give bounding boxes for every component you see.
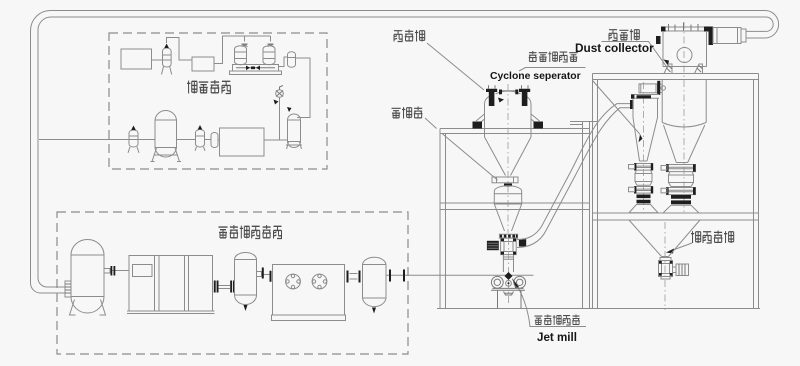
wire box2 to PSA towers bbox=[214, 36, 271, 64]
label: 除尘器 (dust collector cn) bbox=[609, 29, 639, 40]
cone support brace bbox=[442, 134, 498, 181]
svg-text:Cyclone seperator: Cyclone seperator bbox=[490, 71, 581, 82]
jet mill neck bbox=[503, 255, 513, 272]
jet mill center hub bbox=[505, 272, 513, 286]
PSA right tower bbox=[263, 46, 275, 65]
filter F5 bbox=[211, 133, 218, 148]
cyclone separator support feet bbox=[473, 114, 544, 129]
filter F4 bbox=[195, 125, 205, 151]
small cyclone centerline bbox=[643, 82, 645, 213]
small cyclone top plate bbox=[631, 95, 659, 99]
jet mill nozzle ring right bbox=[514, 276, 526, 288]
small cyclone flow arrow bbox=[639, 134, 643, 142]
polish vessel V2 bbox=[363, 257, 387, 313]
jet mill stand legs bbox=[498, 290, 522, 308]
dryer porthole right bbox=[312, 274, 327, 289]
screw compressor bbox=[127, 256, 215, 314]
dust collector hopper arrow bbox=[664, 60, 670, 66]
right platform top deck bbox=[593, 74, 759, 80]
dust collector top plate bbox=[661, 23, 709, 32]
platform tie beam bbox=[570, 122, 598, 125]
N2 feed line through mill bbox=[434, 274, 534, 276]
safety valve riser bbox=[274, 86, 284, 141]
jet mill top flange bbox=[499, 234, 519, 238]
label: 原料仓 (raw material silo) bbox=[394, 30, 425, 42]
svg-text:Dust collector: Dust collector bbox=[575, 41, 654, 55]
leader underline: dust collector bbox=[602, 42, 668, 69]
separator vessel V1 bbox=[235, 253, 257, 311]
filter F1 bbox=[162, 44, 172, 75]
V1 outlet nozzle bbox=[257, 268, 272, 282]
platform diagonal brace bbox=[593, 81, 641, 135]
compressor outlet spool bbox=[214, 281, 235, 293]
small cyclone discharge stack bbox=[629, 163, 659, 213]
leader: transition bin bbox=[425, 118, 437, 129]
PSA left tower bbox=[235, 46, 247, 65]
dust collector centerline bbox=[683, 22, 685, 212]
ground base line bbox=[437, 308, 760, 310]
buffer tank T1 bbox=[151, 111, 182, 162]
rotary valve: product discharge bbox=[659, 258, 673, 280]
jet mill hopper stub bbox=[504, 292, 514, 296]
recirculation pipe: left vertical run bbox=[31, 30, 39, 283]
label: 成品料仓 (finished product silo) bbox=[691, 231, 734, 244]
PSA base skid bbox=[230, 65, 282, 75]
jet mill classifier motor (left) bbox=[487, 241, 499, 250]
label: 旋风分离器 (cyclone separator cn) bbox=[529, 51, 578, 62]
arrowhead: jet mill leader bbox=[512, 278, 519, 289]
jet mill centerline bbox=[508, 238, 510, 305]
dashed enclosure: nitrogen compression system bbox=[57, 212, 408, 354]
dust collector cone bbox=[664, 125, 705, 163]
filter F2 bbox=[288, 52, 296, 68]
jet mill right block bbox=[519, 239, 526, 246]
wire box to filter F1 bbox=[152, 59, 163, 61]
branch line to nitrogen generation system bbox=[39, 139, 129, 141]
recirculation pipe: lower right run to muffler bbox=[746, 31, 766, 38]
leader underline: cyclone separator bbox=[519, 68, 586, 72]
left platform top deck bbox=[440, 129, 590, 134]
recirculation pipe: top run inner bbox=[51, 16, 766, 18]
V2 outlet line to jet mill bbox=[386, 270, 434, 282]
filter F3 bbox=[128, 126, 139, 153]
recirculation pipe: top run outer bbox=[51, 10, 767, 12]
jet mill nozzle ring left bbox=[491, 276, 503, 288]
compression: buffer tank T3 bbox=[70, 240, 106, 316]
dust collector discharge stack bbox=[661, 164, 699, 213]
product tank T2 bbox=[286, 107, 302, 149]
transition bin bbox=[494, 186, 521, 231]
wire F2 down to product tank T2 bbox=[296, 58, 311, 118]
dust collector manhole bbox=[677, 48, 692, 63]
tank T3 outlet nozzle bbox=[104, 266, 129, 276]
small cyclone barrel and cone bbox=[633, 98, 658, 161]
PSA tower valves bbox=[242, 44, 274, 47]
label: 氮气压缩系统 (nitrogen compression system) bbox=[219, 225, 283, 239]
left platform columns bbox=[440, 122, 590, 309]
N2 generation: dryer box bbox=[220, 128, 265, 156]
mill outlet elbow and riser pipe to cyclone bbox=[517, 104, 630, 248]
jet mill classifier head bbox=[501, 238, 517, 255]
cyclone separator center lid bbox=[498, 90, 518, 103]
muffler/silencer bbox=[709, 27, 747, 46]
tank T3 inlet flange (hatched) bbox=[65, 281, 71, 297]
N2 generation: control box2 bbox=[192, 57, 214, 71]
leader: jet mill label bbox=[514, 281, 586, 327]
label: 过渡仓 (transition bin) bbox=[392, 107, 423, 119]
dryer outlet spool bbox=[347, 271, 361, 283]
recirculation pipe: right U-bend bbox=[766, 11, 779, 39]
leader: raw material silo bbox=[427, 43, 484, 90]
cyclone separator centerline bbox=[507, 84, 509, 233]
leader: finished product silo bbox=[669, 243, 692, 252]
wire PSA to filter F2 bbox=[279, 57, 288, 67]
rotary valve motor bbox=[673, 264, 689, 276]
recirculation pipe: bottom-left elbow into tank bbox=[31, 278, 67, 293]
cyclone separator body bbox=[485, 91, 532, 175]
wire F1 to box2 bbox=[167, 38, 193, 61]
arrowhead: finished product silo leader bbox=[666, 249, 674, 254]
right platform columns bbox=[593, 74, 759, 309]
spool flange into dust collector bbox=[657, 81, 665, 95]
label: 气流粉碎机 (jet mill cn) bbox=[534, 315, 579, 326]
small cyclone inlet flange bbox=[630, 100, 634, 109]
product hopper V-bin bbox=[629, 220, 700, 257]
discharge valve under cyclone bbox=[492, 177, 518, 187]
label: 制氮系统 (nitrogen generation system) bbox=[187, 80, 231, 94]
cooler/dryer unit bbox=[272, 265, 346, 321]
dashed enclosure: nitrogen generation system bbox=[109, 33, 327, 169]
cyclone separator filter posts bbox=[486, 85, 530, 106]
product hopper centerline bbox=[664, 222, 666, 310]
dust collector body bbox=[663, 31, 707, 67]
right platform mid deck bbox=[593, 213, 759, 220]
dryer porthole left bbox=[286, 274, 301, 289]
dust collector lower chamber bbox=[662, 80, 706, 127]
small cyclone outlet spool bbox=[639, 84, 658, 93]
svg-text:Jet mill: Jet mill bbox=[537, 331, 577, 344]
N2 generation: oxygen analyzer box bbox=[121, 49, 152, 69]
left platform mid deck bbox=[440, 203, 590, 210]
dust collector support feet bbox=[664, 64, 703, 74]
N2 generation bottom row pipe bbox=[129, 139, 288, 142]
recirculation pipe: left top corner bbox=[31, 11, 52, 31]
dust collector side tap bbox=[656, 36, 661, 44]
jet mill base plates bbox=[491, 288, 525, 290]
